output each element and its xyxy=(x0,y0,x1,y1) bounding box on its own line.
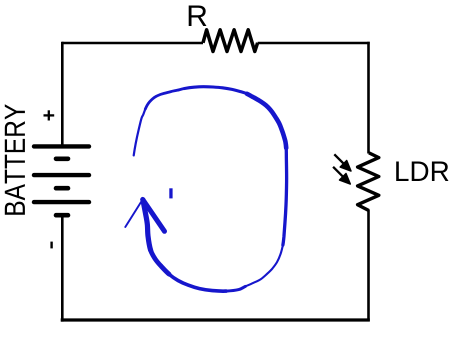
label - polarity xyxy=(50,242,52,249)
battery plate short 1 xyxy=(56,157,68,162)
wire top-right segment xyxy=(258,42,370,45)
wire bottom segment xyxy=(61,318,370,321)
battery plate short 3 (-) xyxy=(56,213,68,218)
label R xyxy=(189,6,207,27)
battery BATTERY: plate long 1 (+) xyxy=(34,144,89,148)
current loop bottom-right arc xyxy=(245,245,283,286)
arrowhead left barb xyxy=(125,199,142,227)
resistor R xyxy=(203,30,258,52)
current loop bottom-right transition xyxy=(226,286,245,291)
current loop top arc xyxy=(185,87,248,94)
current loop final ascent to arrow tip xyxy=(143,200,151,250)
label LDR xyxy=(396,162,448,182)
LDR light arrow 2 xyxy=(333,167,350,184)
current loop top-left bend xyxy=(145,89,184,110)
wire left lower segment xyxy=(61,217,64,322)
label BATTERY xyxy=(5,104,25,214)
LDR light arrow 1 xyxy=(334,154,351,171)
wire left upper segment xyxy=(61,42,64,146)
battery plate long 3 xyxy=(34,200,89,204)
current loop (current direction annotation) start thin rise xyxy=(134,109,146,155)
current loop top-right corner xyxy=(247,94,286,148)
wire right lower segment xyxy=(367,210,370,321)
label I (current) xyxy=(169,188,172,198)
wire right upper segment xyxy=(367,42,370,154)
battery plate short 2 xyxy=(56,186,68,191)
label + polarity xyxy=(44,110,55,120)
wire top-left segment xyxy=(62,42,203,45)
current loop bottom-left arc xyxy=(151,250,170,274)
current loop right side xyxy=(283,148,287,245)
current loop bottom arc xyxy=(169,274,226,291)
photoresistor LDR xyxy=(358,153,379,211)
arrowhead right barb xyxy=(143,199,165,231)
battery plate long 2 xyxy=(34,173,89,177)
